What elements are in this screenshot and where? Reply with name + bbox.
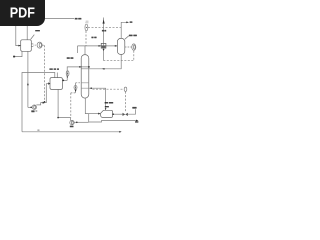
arrow bottom recycle end (119, 131, 121, 133)
arrow P2 discharge (43, 102, 46, 104)
label N2 (130, 21, 133, 23)
wire V1 bottom center line down (27, 51, 29, 107)
PDF badge (0, 0, 45, 26)
inline circle on drop (74, 85, 77, 89)
label air/fuel (75, 18, 78, 20)
wire vertical to vessel V1 top (26, 24, 28, 40)
wire top stream line (40, 18, 74, 20)
instrument LC circle (124, 87, 127, 91)
wire vent riser with arrow (103, 18, 105, 61)
arrow down on drop (75, 90, 77, 92)
wire riser R1 to column feed (67, 67, 89, 81)
arrow V1 drain left (13, 56, 15, 58)
wire R1 bottoms down (58, 89, 71, 120)
label product right (135, 121, 138, 122)
wire P2 bottom run (28, 106, 32, 108)
node junction dot P2 (30, 107, 32, 109)
arrow N2 right (126, 21, 129, 23)
wire drum label diagonal (125, 36, 129, 39)
column C1 body (81, 55, 89, 98)
wire dashed column left level tap (76, 82, 82, 84)
pump P1 (37, 42, 42, 48)
wire long bottom recycle (22, 131, 120, 133)
wire drum top vent (121, 22, 127, 38)
reactor R1 (50, 78, 62, 90)
wire overhead horizontal (78, 45, 118, 47)
arrow R1 right stub (62, 80, 64, 82)
node junction dot bottoms (90, 87, 92, 89)
wire dashed RP down and left (104, 51, 134, 61)
wire bottoms valve drop (75, 83, 77, 93)
arrow into pot (98, 113, 100, 115)
wire overhead left stub down (77, 46, 79, 53)
label reflux drum (129, 35, 133, 37)
wire riser P2 to R1 (36, 84, 46, 105)
wire column bottom apex down (85, 98, 88, 113)
valve bowtie (123, 113, 128, 116)
wire V1 bottom left drain (15, 51, 23, 56)
label right of vent (102, 30, 104, 32)
instrument C2 circle (85, 24, 88, 31)
tray line level tap (81, 82, 89, 84)
wire feed into R1 left (46, 83, 48, 85)
label mix near C2 (91, 37, 93, 39)
wire R1 right stub (62, 79, 67, 81)
wire reflux drum bottoms (81, 54, 121, 68)
wire V1 right nozzle upper (31, 43, 33, 45)
label storage up (132, 107, 136, 109)
drum D1 (117, 38, 124, 54)
wire valve to corner up (128, 109, 136, 114)
arrow vent up (103, 19, 105, 23)
label above column (86, 21, 89, 22)
label bottom line (37, 129, 39, 131)
wire dashed level loop right (93, 88, 125, 90)
reflux pump RP (132, 44, 136, 50)
label above pot (105, 102, 109, 104)
pump P2 (32, 105, 36, 109)
wire dashed drum to RP (125, 46, 132, 48)
arrow below valve box (103, 49, 105, 51)
arrow overhead flow (99, 45, 102, 47)
arrow V1 inlet (18, 45, 21, 47)
wire product line right arrow (89, 121, 138, 123)
wire P3 discharge (74, 121, 89, 123)
pot vessel (100, 110, 112, 117)
wire recycle riser left (22, 73, 55, 132)
wire dashed C2 down (85, 31, 87, 46)
wire dashed from P1 right (42, 44, 44, 46)
arrow into R1 left (48, 82, 50, 84)
arrow product right (136, 120, 138, 122)
label steam (35, 30, 40, 31)
wire R1 second top stub (56, 73, 58, 78)
pump P3 (70, 120, 74, 124)
label above R1 (49, 68, 52, 70)
wire inlet left vertical (16, 24, 20, 46)
wire tee down to product line (88, 114, 90, 122)
arrow feed into column (79, 66, 82, 68)
wire dashed LC to valve (124, 92, 126, 112)
label under P2 (31, 110, 34, 112)
valve box on overhead at vent tee (101, 43, 106, 48)
wire dashed horizontal low (71, 92, 76, 94)
wire V1 right nozzle lower (31, 45, 33, 47)
label under P3 (70, 126, 74, 128)
tray line bottoms (81, 87, 89, 89)
node junction dot P3 (76, 122, 78, 124)
node junction dot column right (88, 66, 90, 68)
wire pot outlet to valve (113, 113, 123, 115)
node junction dot R1 bottoms (57, 117, 59, 119)
wire dotted V1 to pump P1 (34, 44, 38, 46)
labels (tiny word smudges) (31, 18, 138, 131)
wire dashed vertical from P1 down (44, 45, 46, 102)
arrow up on V1 bottoms line (27, 83, 29, 86)
wire diagonal steam inlet (31, 35, 35, 40)
wire dashed C2 right (88, 26, 121, 28)
svg-text:PDF: PDF (10, 5, 35, 21)
wire overhead from dome (84, 46, 86, 55)
wire pot feed with tee (89, 113, 99, 115)
arrow into drum D1 (115, 45, 118, 47)
wire column bottoms right (89, 88, 106, 110)
label left of column (67, 57, 70, 59)
inline circle on riser (66, 71, 69, 76)
wire dashed drop to P3 (70, 93, 72, 118)
arrow reflux into column (102, 68, 105, 70)
vessel V1 (21, 40, 32, 52)
